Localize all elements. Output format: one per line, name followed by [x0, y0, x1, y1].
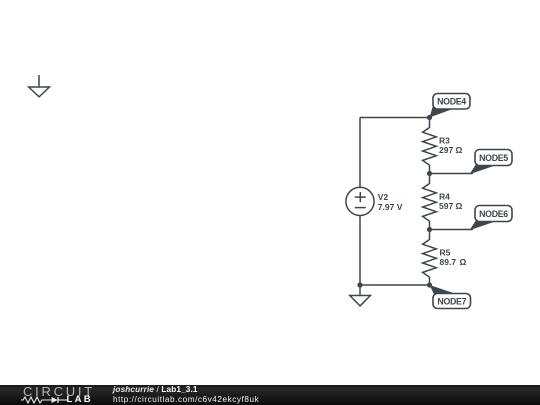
svg-text:597 Ω: 597 Ω — [439, 201, 463, 211]
svg-text:NODE5: NODE5 — [479, 153, 508, 163]
svg-text:V2: V2 — [378, 192, 389, 202]
svg-text:NODE4: NODE4 — [437, 96, 466, 106]
svg-text:R3: R3 — [439, 135, 450, 145]
svg-text:R5: R5 — [440, 247, 451, 257]
svg-text:R4: R4 — [439, 191, 450, 201]
svg-text:297 Ω: 297 Ω — [439, 145, 463, 155]
svg-text:7.97 V: 7.97 V — [378, 202, 403, 212]
svg-text:89.7 Ω: 89.7 Ω — [440, 257, 467, 267]
svg-text:NODE6: NODE6 — [479, 209, 508, 219]
svg-text:NODE7: NODE7 — [437, 296, 466, 306]
